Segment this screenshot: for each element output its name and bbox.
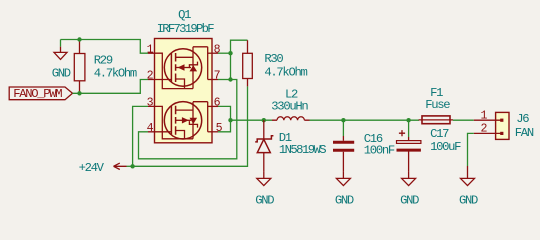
- svg-text:IRF7319PbF: IRF7319PbF: [157, 22, 215, 36]
- source connect: [176, 79, 185, 89]
- svg-text:GND: GND: [459, 193, 478, 207]
- svg-text:330uHn: 330uHn: [271, 99, 308, 113]
- junction D1 node: [262, 118, 266, 122]
- ground GND2 (under D1): [257, 171, 271, 185]
- svg-text:2: 2: [481, 123, 488, 136]
- drain line and riser: [176, 47, 208, 89]
- svg-text:4.7kOhm: 4.7kOhm: [94, 66, 137, 80]
- svg-text:Fuse: Fuse: [425, 98, 450, 112]
- wire FANO_PWM to pin2 jog: [73, 80, 149, 94]
- channel segments: [175, 53, 177, 82]
- wire +24V rail to R30 bottom: [133, 86, 248, 166]
- svg-text:7: 7: [214, 70, 221, 83]
- wire fuse to J6 pin1: [453, 119, 474, 121]
- pin 3 source path: [148, 106, 193, 138]
- fuse F1: [419, 116, 453, 124]
- svg-text:GND: GND: [52, 67, 71, 81]
- drain line and riser: [176, 102, 208, 139]
- svg-text:6: 6: [214, 97, 221, 110]
- svg-text:1: 1: [481, 109, 488, 122]
- wire pin4 to gate node: [139, 80, 237, 159]
- MOSFET Q1 body box: [155, 39, 213, 143]
- ground GND3 (under C16): [336, 171, 350, 185]
- svg-text:100uF: 100uF: [430, 140, 461, 154]
- junction at R29 top: [77, 37, 81, 41]
- wire D1 to GND2: [263, 159, 265, 172]
- svg-text:GND: GND: [255, 193, 274, 207]
- svg-text:Q1: Q1: [178, 8, 191, 22]
- svg-text:2: 2: [147, 70, 154, 83]
- junction +24V node: [130, 164, 134, 168]
- source connect: [176, 131, 185, 139]
- junction pin8 node: [228, 51, 232, 55]
- body arrow (points left): [176, 67, 191, 69]
- svg-text:4.7kOhm: 4.7kOhm: [264, 66, 307, 80]
- wire pin3 to +24V junction: [133, 106, 148, 166]
- junction C16 node: [341, 118, 345, 122]
- power +24V arrow: [114, 163, 133, 169]
- pin 5 stub: [208, 131, 218, 133]
- resistor R29: [74, 40, 85, 93]
- gate bar: [170, 53, 172, 83]
- svg-text:100nF: 100nF: [364, 144, 395, 158]
- wire output rail to L2: [231, 119, 273, 121]
- ground GND4 (under C17): [402, 171, 416, 185]
- body diode (up): [189, 62, 197, 69]
- capacitor C17 (polarized): [397, 120, 421, 156]
- svg-text:GND: GND: [335, 193, 354, 207]
- svg-text:1: 1: [147, 43, 154, 56]
- capacitor C16: [333, 120, 354, 156]
- svg-text:R30: R30: [264, 52, 283, 66]
- pin 2 gate path: [148, 79, 171, 81]
- global label FANO_PWM: [9, 87, 72, 101]
- svg-text:FANO_PWM: FANO_PWM: [13, 87, 62, 101]
- svg-text:GND: GND: [400, 193, 419, 207]
- pin 7 stub: [208, 79, 218, 81]
- ground GND5 (under J6): [461, 166, 475, 186]
- wire GND1 to top rail: [60, 40, 62, 47]
- wire pin6 pin5 to output rail: [218, 106, 231, 131]
- svg-text:1N5819WS: 1N5819WS: [279, 143, 326, 157]
- svg-text:R29: R29: [94, 53, 113, 67]
- body diode (down): [189, 121, 197, 128]
- wire R30 top to pins 8/7: [231, 40, 248, 79]
- resistor R30: [243, 40, 253, 86]
- wire C16 to GND3: [342, 157, 344, 172]
- junction pin7 node: [228, 77, 232, 81]
- svg-text:8: 8: [214, 43, 221, 56]
- junction C17 node: [406, 118, 410, 122]
- wire L2 to fuse: [310, 119, 420, 121]
- pin 1 source path: [148, 53, 193, 88]
- wire C17 to GND4: [408, 157, 410, 172]
- wire J6 pin2 to GND5: [468, 133, 474, 166]
- pin 8 stub: [208, 52, 218, 54]
- pin 6 stub: [208, 105, 218, 107]
- ground GND1 (top left): [54, 47, 67, 60]
- body arrow (points right): [176, 119, 191, 121]
- junction output rail start: [228, 118, 232, 122]
- connector J6: [474, 112, 509, 139]
- wire pin7 to node: [218, 79, 231, 81]
- svg-text:FAN: FAN: [515, 126, 534, 140]
- wire top rail GND to pin1 jog: [61, 40, 149, 54]
- channel segments: [175, 106, 177, 135]
- svg-text:3: 3: [147, 97, 154, 110]
- svg-text:J6: J6: [516, 112, 529, 126]
- wire pin8 to node: [218, 52, 231, 54]
- svg-text:+24V: +24V: [79, 161, 105, 175]
- diode D1 (schottky): [255, 120, 273, 158]
- inductor L2: [272, 117, 310, 120]
- junction at R29 bottom: [77, 91, 81, 95]
- gate bar: [170, 106, 172, 135]
- pin 4 gate path: [148, 131, 171, 133]
- svg-text:4: 4: [147, 122, 154, 135]
- svg-text:5: 5: [216, 122, 223, 135]
- transistor Q1 unit A (top N-FET): [148, 47, 218, 89]
- transistor Q1 unit B (bottom P-FET): [148, 102, 218, 139]
